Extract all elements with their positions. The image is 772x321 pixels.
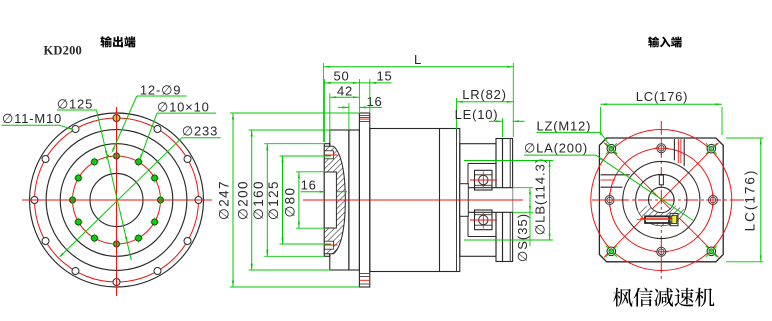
corner tapped holes LZ (606, 143, 617, 154)
dimension 42 (330, 83, 360, 142)
dimension 12-Φ9 with leader (106, 82, 187, 160)
dimension ΦS(35) (513, 188, 533, 262)
svg-text:50: 50 (333, 69, 349, 84)
dimension ΦLB(114.3) (464, 158, 553, 240)
dimension Φ160 (251, 144, 324, 257)
dimension LR(82) (457, 87, 514, 129)
svg-text:LE(10): LE(10) (455, 107, 499, 122)
flange hatch bottom (360, 274, 369, 285)
svg-text:LZ(M12): LZ(M12) (537, 118, 592, 133)
body joint lines (440, 129, 457, 272)
section view centerline (303, 199, 523, 201)
bearing bottom (470, 210, 497, 230)
svg-text:∅LB(114.3): ∅LB(114.3) (533, 158, 548, 235)
dimension Φ125 with leader (57, 96, 131, 260)
svg-text:15: 15 (376, 69, 392, 84)
keyway slot top (659, 175, 663, 185)
bolt circle mid red (610, 148, 713, 251)
dimension Φ200 (235, 130, 330, 270)
left view: output flange face (22, 107, 212, 296)
flange hatch top (360, 115, 369, 121)
set key yellow (670, 213, 678, 225)
svg-text:LC(176): LC(176) (636, 89, 689, 104)
svg-text:16: 16 (366, 94, 382, 109)
gear body (370, 129, 460, 272)
label ΦLA(200) with leader (524, 141, 694, 221)
flange disc Φ247 (359, 113, 369, 287)
top cable feature (674, 139, 684, 166)
shaft circle ΦS (649, 187, 675, 213)
seal ring bottom (324, 241, 337, 249)
key block (637, 216, 679, 223)
dimension Φ10×10 with leader (140, 99, 217, 160)
svg-text:12-∅9: 12-∅9 (140, 82, 181, 97)
dimension 16 keyway leader (301, 177, 347, 193)
hub neck (349, 130, 360, 270)
svg-text:16: 16 (301, 177, 317, 192)
label 输入端 (input end) (648, 36, 682, 47)
svg-text:L: L (414, 52, 422, 67)
input flange square LC×LC (599, 138, 723, 262)
dimension Φ125 (266, 156, 331, 244)
dimension LE(10) (455, 107, 525, 137)
brand 枫信减速机 (613, 288, 714, 307)
svg-text:∅80: ∅80 (283, 187, 298, 218)
shaft key section hatch (638, 205, 685, 226)
dimension LC(176) top (601, 89, 722, 135)
bearing top (470, 170, 497, 190)
svg-text:42: 42 (337, 83, 353, 98)
mid bolt holes (603, 193, 617, 207)
spigot circle ΦLB (623, 161, 700, 238)
svg-text:∅125: ∅125 (266, 180, 281, 220)
input end cap (503, 139, 513, 262)
circle Φ70 (636, 174, 687, 225)
svg-text:∅233: ∅233 (182, 123, 218, 138)
svg-text:∅160: ∅160 (251, 180, 266, 220)
right view centerlines (592, 121, 749, 281)
svg-text:LR(82): LR(82) (462, 87, 507, 102)
input shaft bore ΦS (460, 184, 513, 217)
svg-text:LC(176): LC(176) (743, 169, 758, 232)
svg-text:∅10×10: ∅10×10 (157, 99, 210, 114)
dimension 16 (neck) (338, 79, 383, 129)
input flange plate LE (496, 139, 503, 262)
housing inner lines (468, 164, 496, 237)
dimension L (323, 52, 513, 142)
output spigot Φ160 (324, 144, 330, 257)
left ledge detail (601, 175, 630, 187)
svg-text:KD200: KD200 (44, 44, 83, 58)
bolt circle ΦLA red (591, 130, 732, 271)
label LZ(M12) with leader (537, 118, 618, 155)
dimension 50 (324, 69, 359, 143)
svg-text:∅S(35): ∅S(35) (515, 213, 530, 262)
svg-text:∅247: ∅247 (217, 180, 232, 220)
output cover bowl section (hatched) (324, 146, 345, 254)
dimension Φ11-M10 with leader (2, 111, 75, 130)
output hub Φ200 (330, 130, 349, 270)
seal ring top (324, 151, 337, 159)
label 输出端 (output end) (100, 36, 135, 47)
dimension Φ80 (283, 172, 325, 228)
dimension LC(176) right (726, 138, 764, 262)
dimension 15 (359, 69, 392, 85)
dimension Φ247 (217, 113, 360, 287)
svg-text:∅125: ∅125 (57, 96, 93, 111)
svg-text:∅200: ∅200 (235, 180, 250, 220)
dimension Φ233 with long leader (59, 123, 221, 258)
svg-text:∅LA(200): ∅LA(200) (524, 141, 588, 156)
svg-text:∅11-M10: ∅11-M10 (2, 111, 62, 126)
input bearing housing Φ160 (460, 144, 496, 257)
